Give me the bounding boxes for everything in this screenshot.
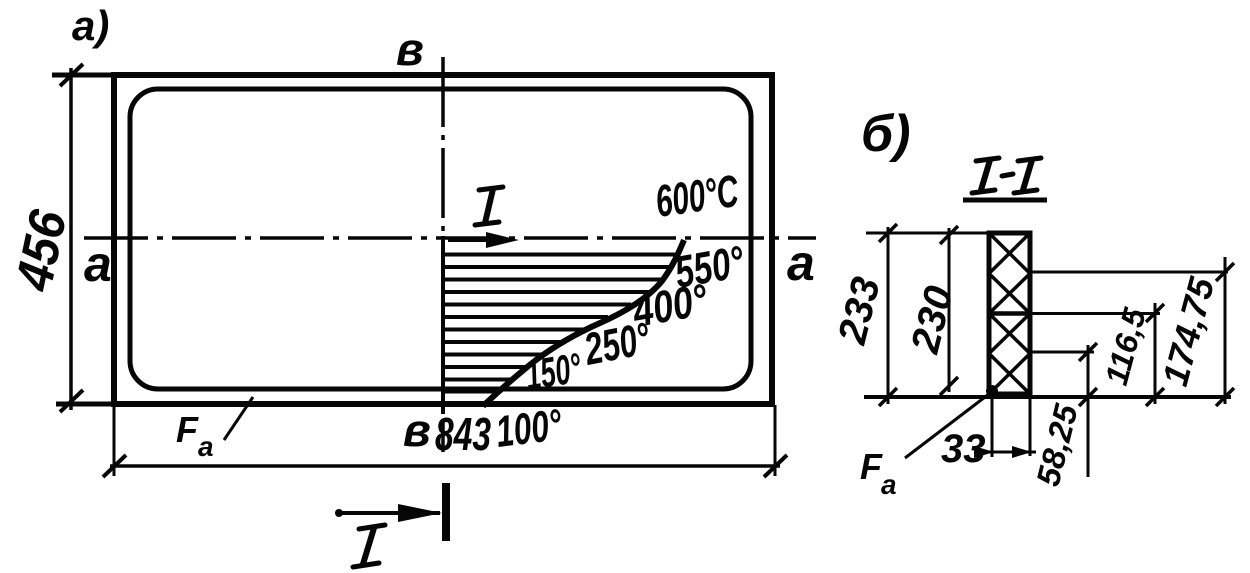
- tick bottom: [60, 390, 83, 412]
- tick left: [103, 455, 126, 477]
- svg-text:F: F: [860, 446, 883, 487]
- horizontal center line a-a: [84, 236, 816, 240]
- extension line below baseline (column left): [991, 397, 994, 457]
- tick right: [764, 455, 787, 477]
- baseline: [864, 395, 1231, 399]
- dimension line 116,5: [1154, 303, 1157, 404]
- svg-text:а): а): [72, 2, 109, 49]
- X bracing cell 3: [989, 314, 1030, 354]
- svg-text:а: а: [881, 469, 897, 500]
- underline I-I: [963, 198, 1047, 203]
- svg-text:250°: 250°: [580, 314, 655, 376]
- label I (top): [475, 187, 503, 225]
- svg-text:150°: 150°: [522, 345, 585, 400]
- svg-text:33: 33: [941, 427, 986, 471]
- svg-text:а: а: [84, 236, 112, 292]
- vertical center line b-b: [441, 57, 445, 452]
- svg-text:456: 456: [4, 204, 78, 296]
- bottom edge extension to the left: [56, 402, 114, 407]
- right horizontal line (58,25 level): [1030, 351, 1094, 354]
- svg-text:233: 233: [830, 273, 889, 349]
- leader line Fa: [224, 397, 253, 440]
- label I (bottom): [353, 525, 385, 567]
- left extension for bottom dimension: [113, 405, 116, 476]
- solid part of vertical line (hatch boundary): [441, 236, 445, 414]
- right horizontal line (174,75 level): [1030, 271, 1228, 274]
- bottom dimension line 843: [110, 464, 780, 468]
- svg-text:174,75: 174,75: [1154, 272, 1222, 390]
- svg-text:в: в: [403, 404, 431, 456]
- outer rectangle: [114, 75, 772, 404]
- top line extension left of column: [866, 232, 989, 235]
- dimension 33: [984, 451, 1036, 454]
- column mid divider: [989, 311, 1030, 316]
- svg-text:600°С: 600°С: [652, 166, 741, 228]
- dimension line 58,25: [1087, 345, 1090, 477]
- X bracing cell 1: [989, 233, 1030, 274]
- svg-text:100°: 100°: [493, 400, 565, 457]
- svg-text:а: а: [787, 235, 815, 291]
- dimension line 174,75: [1224, 257, 1227, 404]
- section cut bar: [442, 483, 450, 541]
- label I-I: [972, 158, 1041, 193]
- svg-text:а: а: [198, 431, 214, 462]
- X bracing cell 2: [989, 274, 1030, 314]
- column rectangle: [989, 233, 1030, 394]
- right horizontal line (116,5 level): [1030, 312, 1160, 315]
- svg-text:116,5: 116,5: [1098, 303, 1153, 389]
- svg-text:58,25: 58,25: [1029, 400, 1085, 490]
- dimension line 233: [887, 227, 890, 404]
- svg-text:б): б): [861, 105, 911, 163]
- anchor blob: [986, 385, 998, 397]
- leader line Fa: [905, 394, 989, 458]
- section arrow: [338, 511, 440, 515]
- top edge extension to the left: [52, 73, 114, 78]
- hatch lines: [444, 255, 676, 392]
- extension line below baseline (column right): [1029, 397, 1032, 456]
- vertical dimension line 456: [69, 68, 73, 410]
- svg-text:в: в: [396, 23, 424, 75]
- right extension for bottom dimension: [774, 405, 777, 476]
- arrow I on center line: [448, 238, 494, 242]
- dimension line 230: [948, 228, 951, 392]
- inner rounded rectangle: [130, 89, 751, 389]
- tick top: [60, 64, 83, 86]
- svg-text:843: 843: [435, 409, 491, 460]
- svg-text:230: 230: [903, 282, 962, 358]
- X bracing cell 4: [989, 354, 1030, 395]
- svg-text:F: F: [176, 409, 199, 450]
- temperature curve: [483, 240, 684, 406]
